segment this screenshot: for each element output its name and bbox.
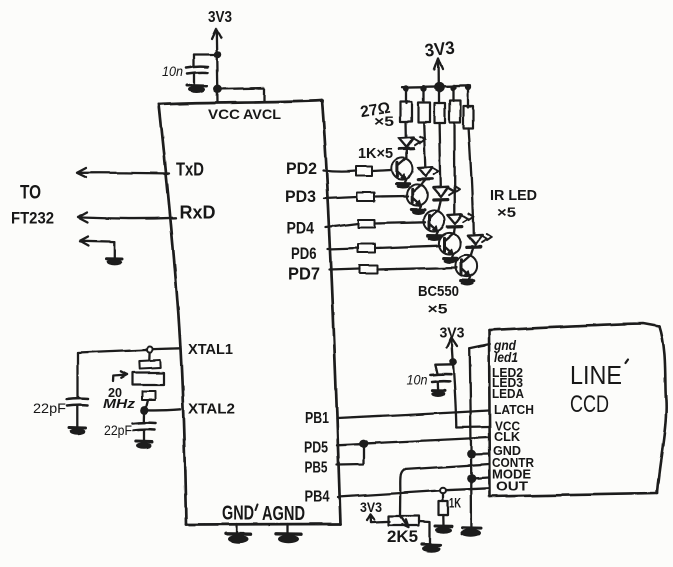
svg-text:1K: 1K xyxy=(449,495,461,511)
svg-text:GND: GND xyxy=(222,503,254,525)
svg-text:22pF: 22pF xyxy=(104,423,132,438)
svg-text:XTAL1: XTAL1 xyxy=(188,341,233,358)
svg-text:OUT: OUT xyxy=(496,480,528,494)
svg-text:XTAL2: XTAL2 xyxy=(188,401,235,418)
svg-text:PD6: PD6 xyxy=(291,245,317,263)
svg-text:×5: ×5 xyxy=(428,301,448,317)
svg-text:CCD: CCD xyxy=(570,391,609,418)
svg-text:AVCL: AVCL xyxy=(243,107,281,122)
svg-text:TxD: TxD xyxy=(176,160,204,180)
svg-text:IR LED: IR LED xyxy=(490,187,537,204)
svg-text:MHz: MHz xyxy=(103,396,136,411)
svg-text:led1: led1 xyxy=(494,349,518,365)
svg-text:PD2: PD2 xyxy=(286,159,317,178)
svg-text:AGND: AGND xyxy=(262,503,305,525)
svg-text:PD4: PD4 xyxy=(287,219,315,238)
svg-text:FT232: FT232 xyxy=(11,209,54,228)
svg-text:TO: TO xyxy=(20,183,41,204)
svg-text:LINE: LINE xyxy=(570,360,622,390)
svg-text:PD5: PD5 xyxy=(304,440,328,457)
svg-text:3V3: 3V3 xyxy=(424,38,456,61)
svg-text:×5: ×5 xyxy=(374,113,394,129)
svg-text:1K×5: 1K×5 xyxy=(358,146,393,162)
svg-text:2K5: 2K5 xyxy=(387,527,418,546)
svg-text:10n: 10n xyxy=(407,372,428,388)
svg-text:PD7: PD7 xyxy=(288,264,320,284)
svg-text:10n: 10n xyxy=(162,63,183,79)
svg-text:PD3: PD3 xyxy=(285,187,316,206)
svg-text:LATCH: LATCH xyxy=(494,403,534,417)
svg-text:3V3: 3V3 xyxy=(440,325,465,342)
svg-text:×5: ×5 xyxy=(497,204,516,220)
svg-text:CLK: CLK xyxy=(494,430,520,444)
svg-text:RxD: RxD xyxy=(180,203,216,223)
svg-text:PB1: PB1 xyxy=(305,410,329,427)
svg-text:PB4: PB4 xyxy=(305,489,330,506)
svg-text:BC550: BC550 xyxy=(418,283,459,300)
svg-text:3V3: 3V3 xyxy=(360,500,382,515)
svg-text:VCC: VCC xyxy=(208,107,240,122)
svg-text:3V3: 3V3 xyxy=(208,9,232,26)
svg-text:LEDA: LEDA xyxy=(492,387,524,401)
svg-text:22pF: 22pF xyxy=(33,401,66,416)
svg-text:PB5: PB5 xyxy=(305,460,328,477)
